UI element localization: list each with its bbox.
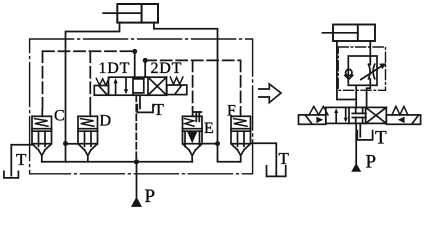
wire: cylinder left port down to A rail and drop [66,23,120,144]
wire: valve D bottom stub [87,155,89,161]
node: A line junction dot [63,141,68,146]
P pressure source triangle (right circuit) [351,163,361,172]
pilot valve U1 (4/3 solenoid directional valve) [94,77,187,95]
wire: right valve P line [355,123,357,163]
svg-text:D: D [100,113,112,130]
right valve square 3: crossed arrows [366,107,387,123]
check valve on insert box left edge [346,69,352,75]
node: B line junction dot [215,141,220,146]
spring (left W, right valve) [309,106,328,115]
node: P junction dot [134,159,139,164]
valve E (cartridge insert valve, poppet shown) [183,116,203,155]
valve F (cartridge insert valve) [231,116,251,155]
spring (right W, right valve) [392,106,408,115]
cylinder (left circuit) [103,4,158,23]
svg-text:C: C [54,108,65,125]
wire: right cylinder left port drop to valve [337,41,356,100]
wire: pilot valve port A drop [134,51,136,77]
right valve square 1: parallel arrows [335,111,337,122]
wire: P rail [42,161,192,163]
svg-text:T: T [375,127,387,148]
wire: right cylinder right port drop into insert box [369,41,371,65]
wire: cylinder right port to B drop [154,23,218,144]
cartridge insert box (right circuit) [348,56,377,85]
cylinder (right circuit) [322,25,375,42]
svg-text:T: T [279,149,290,168]
wire: insert box to valve P-side port [355,85,357,107]
solenoid 2DT box [167,85,187,95]
svg-text:P: P [366,151,377,172]
pilot line B (dashed) from pilot valve to E and F tops [145,60,240,112]
wire: P source line [136,162,138,197]
svg-text:P: P [145,186,156,207]
wire: right valve T drain [359,123,361,136]
big open arrow between circuits [259,84,281,103]
4/3 solenoid valve (right circuit) [299,106,421,124]
valve D (cartridge insert valve) [78,116,98,155]
wire: A junction to valve D side port [66,143,79,145]
wire: valve F side port to right tank [251,143,277,175]
svg-text:2DT: 2DT [151,60,183,77]
pilot valve drain line to tank [139,95,141,108]
wire: throttle outlet inside insert [369,79,371,85]
wire: A junction drop to P rail [65,144,67,162]
svg-text:1DT: 1DT [99,60,131,77]
pilot supply line (dashed) from P junction up to pilot valve [135,95,137,159]
spring (right, W) [170,77,183,84]
P pressure source triangle [131,197,142,207]
wire: valve C bottom stub [41,155,43,161]
right valve square 2: blocked center [355,107,357,113]
left tank symbol [4,171,19,178]
valve E top orifice connection [192,109,194,117]
throttle arcs [369,64,371,78]
wire: valve E bottom stub [191,155,193,161]
solenoid 1DT box [94,86,108,96]
right tank symbol [267,166,286,177]
spring (left, W) [96,78,109,85]
valve C (cartridge insert valve) [32,116,52,155]
pilot line A (dashed) from pilot valve to C and D tops [43,51,135,110]
pilot valve square 3: crossed arrows [148,77,167,95]
node: pilot line B junction dot [143,58,148,63]
wire: pilot valve port B drop [144,60,146,77]
chain box (right circuit, dash-dot) [338,47,385,90]
left solenoid box (right valve) [299,115,326,124]
right solenoid box (right valve) [386,115,420,124]
wire: insert box to valve B-side port [367,85,371,107]
wire: B junction drop to valve F bottom [218,144,241,162]
svg-text:F: F [227,103,236,120]
right valve tank symbol [357,131,372,140]
wire: left tank drop [10,145,12,176]
svg-text:T: T [16,150,27,169]
adjustment arrow (variable throttle) [361,66,382,79]
wire: valve C side port to left tank [11,144,32,146]
manifold enclosure (dash-dot chain box) [30,39,253,174]
node: pilot line A junction dot [132,49,137,54]
pilot valve square 1: parallel arrows [115,81,117,94]
svg-text:E: E [204,120,214,137]
wire: B junction to valve E side port [202,143,218,145]
pilot valve square 2: blocked center bracket [133,79,143,93]
svg-text:T: T [154,100,165,119]
pilot tank symbol [137,105,153,113]
